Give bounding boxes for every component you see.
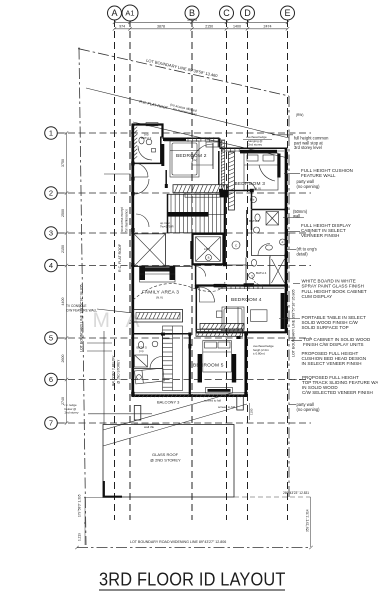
stair handrail (black)	[168, 212, 209, 217]
bedroom 4 top wall (window)	[196, 284, 286, 286]
svg-text:± 0.80m): ± 0.80m)	[253, 352, 265, 356]
exterior wall: bath2 top	[132, 125, 163, 138]
note: white board	[293, 283, 300, 285]
column grid lines	[114, 20, 116, 520]
bedroom 2 side walls	[165, 170, 167, 185]
svg-text:for maintenance: for maintenance	[125, 209, 129, 232]
top dimension lines	[115, 21, 288, 23]
parapet slant line	[133, 122, 288, 158]
note: full height display cabinet	[288, 231, 301, 233]
bottom-left survey dims	[84, 498, 86, 546]
wall between family and bedroom5	[189, 334, 191, 396]
svg-text:(no opening): (no opening)	[297, 407, 321, 412]
svg-text:wall: wall	[293, 214, 300, 219]
lift shaft	[193, 234, 224, 264]
window mullion ticks bedroom2	[187, 137, 189, 142]
bedroom 3 right wall bar	[277, 154, 280, 178]
a/c ledge	[206, 142, 218, 147]
window mullion ticks bedroom3	[221, 147, 223, 152]
ceiling dashed curve	[133, 282, 225, 300]
bath 5 walls	[133, 333, 190, 335]
svg-text:(RW): (RW)	[296, 113, 303, 117]
svg-text:R.C. FLAT ROOF: R.C. FLAT ROOF	[118, 243, 122, 272]
tv console	[134, 310, 183, 323]
roof step line	[104, 173, 131, 175]
svg-text:BATH 3: BATH 3	[249, 219, 260, 223]
svg-text:B: B	[189, 8, 195, 18]
bath 2 walls	[133, 137, 161, 164]
marker circle d	[280, 239, 286, 245]
bottom-right survey dims	[234, 496, 311, 498]
svg-text:3rd storey level: 3rd storey level	[294, 145, 322, 150]
svg-text:2nd storey: 2nd storey	[248, 143, 263, 147]
row grid lines	[58, 132, 312, 134]
svg-text:@ 2ND STOREY: @ 2ND STOREY	[150, 458, 181, 463]
bedroom 4 bed head bar	[281, 293, 285, 329]
svg-text:(no opening): (no opening)	[297, 184, 321, 189]
svg-text:3: 3	[49, 229, 53, 238]
svg-text:@ 2ND STOREY: @ 2ND STOREY	[117, 359, 121, 384]
window mullion ticks bedroom4	[221, 284, 223, 289]
bench at balcony wall	[206, 388, 233, 394]
svg-text:359°29'1" 2.314: 359°29'1" 2.314	[306, 509, 310, 532]
svg-text:5: 5	[49, 334, 53, 343]
svg-text:A1: A1	[125, 9, 134, 18]
svg-text:BEDROOM 4: BEDROOM 4	[231, 297, 262, 303]
svg-text:(N.V): (N.V)	[254, 187, 261, 191]
bedroom 4 bed	[222, 307, 244, 331]
svg-text:3RD FLOOR ID LAYOUT: 3RD FLOOR ID LAYOUT	[99, 569, 286, 590]
svg-text:FINISH C/W DISPLAY UNITS: FINISH C/W DISPLAY UNITS	[303, 342, 364, 347]
svg-text:no access except: no access except	[120, 207, 124, 232]
svg-text:7: 7	[49, 419, 53, 428]
note: sliding feature wall	[289, 379, 301, 381]
exterior wall step at B/C	[218, 138, 220, 147]
road widening slant lines	[103, 393, 232, 430]
dim 1100	[249, 403, 251, 420]
exterior wall: left	[131, 124, 134, 397]
marker circle b	[251, 197, 257, 203]
svg-text:wall thk: wall thk	[144, 425, 155, 429]
svg-text:E: E	[284, 8, 290, 18]
note: portable table	[279, 318, 300, 320]
bath 3 walls	[252, 209, 287, 211]
bottom road widening boundary	[77, 547, 311, 549]
bedroom 5 feature wall bars (black)	[198, 354, 202, 383]
bedroom 5 bed	[203, 341, 232, 373]
svg-text:4: 4	[49, 261, 53, 270]
svg-text:LOT BOUNDARY ROAD WIDENING LIN: LOT BOUNDARY ROAD WIDENING LINE 89°43'27…	[130, 540, 226, 544]
svg-text:6: 6	[49, 375, 53, 384]
svg-text:269°43'23" 12.831: 269°43'23" 12.831	[283, 491, 309, 495]
svg-text:179°58'0" 1.395: 179°58'0" 1.395	[78, 494, 82, 517]
svg-text:4400: 4400	[61, 298, 65, 306]
lot boundary line (top, slanted)	[79, 49, 289, 96]
bedroom 4 wardrobe strip	[200, 323, 244, 329]
svg-text:D: D	[244, 8, 251, 18]
exterior wall: bedroom3 top (window)	[220, 147, 287, 149]
black block right of wardrobe band	[220, 190, 229, 197]
stair treads	[168, 194, 225, 233]
svg-text:1.219: 1.219	[78, 533, 82, 541]
note: party wall (lower)	[290, 404, 297, 406]
svg-text:(m): (m)	[139, 349, 144, 353]
svg-text:2474: 2474	[264, 24, 272, 28]
svg-text:2600: 2600	[61, 355, 65, 363]
bedroom 2 bed	[170, 141, 199, 177]
bedroom 3 bed	[244, 153, 278, 190]
note: top cabinet	[291, 340, 302, 342]
lift left black bar	[190, 241, 192, 259]
balcony2 roof edge line	[103, 331, 105, 424]
svg-text:2500: 2500	[61, 209, 65, 217]
svg-text:TV CONSOLE: TV CONSOLE	[66, 304, 87, 308]
svg-text:FEATURE WALL: FEATURE WALL	[301, 173, 336, 178]
bath2 wall hatch	[134, 123, 137, 126]
svg-text:LOT BOUNDARY LINE 359°57'16": LOT BOUNDARY LINE 359°57'16" 35.805	[292, 289, 296, 357]
svg-text:SPRAY PAINT GLASS FINISH: SPRAY PAINT GLASS FINISH	[302, 284, 364, 289]
parapet hatch ticks	[134, 394, 136, 397]
svg-text:2: 2	[49, 189, 53, 198]
balcony columns	[134, 406, 141, 421]
svg-text:LIFT: LIFT	[204, 247, 210, 251]
bedroom 2 right wall hatch	[221, 140, 224, 190]
a/c void with cross	[134, 234, 166, 266]
stair right wall	[224, 194, 226, 265]
corridor wall above bedroom4	[195, 265, 197, 286]
svg-text:SOLID SURFACE TOP: SOLID SURFACE TOP	[302, 325, 349, 330]
left dimension line	[66, 133, 68, 423]
glass roof outline	[103, 425, 234, 498]
note: full height common part wall	[272, 134, 293, 136]
svg-text:BATH 4: BATH 4	[256, 271, 267, 275]
svg-text:(N.V): (N.V)	[156, 296, 163, 300]
svg-text:3750: 3750	[61, 159, 65, 167]
bedroom 3 bottom wall	[219, 190, 252, 192]
door jamb blocks	[131, 162, 134, 166]
svg-text:GLASS ROOF: GLASS ROOF	[152, 452, 179, 457]
svg-text:BALCONY 2 BELOW: BALCONY 2 BELOW	[112, 356, 116, 386]
right lot boundary (vertical)	[288, 96, 290, 497]
grid bubbles A A1 B C D E	[108, 6, 122, 20]
corridor line below stairs	[132, 266, 192, 268]
svg-text:C/W FEATURE WALL: C/W FEATURE WALL	[66, 309, 97, 313]
exterior wall: right	[285, 148, 288, 334]
corridor door arc (stairs left)	[136, 214, 149, 227]
bedroom 2 wardrobe door arc	[192, 144, 213, 165]
svg-text:10625: 10625	[187, 18, 197, 22]
svg-text:LOT BOUNDARY LINE 179°57'16": LOT BOUNDARY LINE 179°57'16" 38.205	[80, 284, 84, 352]
row bubbles 1-7	[45, 127, 58, 140]
svg-text:detail): detail)	[297, 251, 309, 256]
svg-text:IN SELECT VENEER FINISH: IN SELECT VENEER FINISH	[302, 361, 362, 366]
svg-text:2150: 2150	[205, 24, 213, 28]
svg-text:2nd storey: 2nd storey	[65, 411, 80, 415]
note: full height cushion feature wall	[284, 173, 300, 175]
svg-text:CUM DISPLAY: CUM DISPLAY	[302, 294, 333, 299]
r.c. flat roof edge (slanted)	[86, 88, 289, 138]
bedroom 4 left wall	[195, 286, 197, 333]
door arc hall	[134, 163, 148, 177]
bedroom 5 wardrobe band	[196, 329, 243, 336]
bedroom 2 wardrobe	[173, 185, 228, 193]
svg-text:3878: 3878	[157, 24, 165, 28]
svg-text:BEDROOM 5: BEDROOM 5	[193, 363, 224, 369]
svg-text:974: 974	[119, 24, 125, 28]
exterior wall: right lower (bedroom5/balcony)	[244, 332, 247, 398]
exterior wall: bedroom2 top (window)	[163, 137, 220, 139]
left lot boundary (vertical)	[79, 49, 86, 546]
svg-text:VERNEER FINISH: VERNEER FINISH	[301, 233, 339, 238]
bedroom5 door jamb	[237, 336, 241, 339]
svg-text:(m): (m)	[144, 133, 149, 137]
bedroom 3 top wall black band	[240, 150, 277, 154]
bedroom 4 door arc	[200, 287, 215, 302]
svg-text:BALCONY 3: BALCONY 3	[157, 400, 180, 405]
bath3 extra walls	[251, 210, 253, 231]
svg-text:A: A	[111, 8, 117, 18]
wall: bedroom4 bottom	[196, 331, 287, 333]
svg-text:a: a	[208, 256, 210, 260]
svg-text:C/W SELECTED VENEER FINISH: C/W SELECTED VENEER FINISH	[302, 390, 373, 395]
bath 4 (lower)	[269, 257, 271, 285]
family bench	[140, 266, 176, 282]
svg-text:1400: 1400	[233, 24, 241, 28]
balcony parapet	[132, 394, 247, 397]
svg-text:C: C	[223, 8, 230, 18]
marker circle c	[232, 241, 240, 249]
balcony lounge chair	[135, 368, 165, 384]
bedroom 3 left wall hatch strip	[228, 152, 234, 210]
svg-text:2150: 2150	[61, 245, 65, 253]
svg-text:1: 1	[49, 129, 53, 138]
linen cabinet strip	[163, 326, 183, 391]
svg-text:c: c	[235, 243, 237, 247]
corridor wall right of stairs	[225, 264, 246, 266]
svg-text:1100: 1100	[250, 408, 254, 415]
